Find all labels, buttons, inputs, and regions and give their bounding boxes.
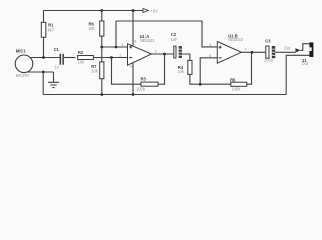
wire pin2 feedback down (112, 58, 142, 85)
wire U1:B output (241, 51, 265, 53)
wire C1 to R2 (64, 57, 76, 59)
op-amp U1:A (128, 44, 152, 65)
svg-text:NE5532: NE5532 (140, 38, 156, 43)
wire R4 to feedback line (190, 74, 231, 84)
svg-text:C2: C2 (171, 32, 177, 37)
node junction pin6/feedback (199, 83, 202, 86)
svg-text:NE5532: NE5532 (228, 37, 244, 42)
out arrow (295, 48, 300, 52)
wire bias node to pin3 (102, 46, 128, 48)
resistor R1 (41, 22, 46, 37)
resistor R7 (100, 62, 104, 79)
node junction pin4/rail (132, 93, 135, 96)
svg-text:2: 2 (119, 54, 121, 58)
resistor R6 (100, 21, 104, 36)
wire arrow to J1 tip (301, 44, 310, 51)
node junction R7/rail (100, 93, 103, 96)
svg-text:Out: Out (284, 46, 291, 51)
svg-text:4k7: 4k7 (47, 27, 54, 32)
wire R7 to ground rail (101, 79, 103, 95)
svg-text:5: 5 (209, 43, 211, 47)
svg-text:R2: R2 (78, 50, 84, 55)
svg-text:10k: 10k (78, 59, 86, 64)
node junction R2/feedback (110, 56, 113, 59)
svg-text:3: 3 (121, 43, 123, 47)
wire pin4 ground (132, 63, 134, 95)
svg-text:1u: 1u (54, 65, 59, 70)
svg-text:7: 7 (244, 48, 246, 52)
wire R6 to R7 bias column (101, 36, 103, 62)
node junction rail/pin8 (132, 9, 135, 12)
wire R2 to pin2 (94, 57, 128, 59)
svg-text:C1: C1 (54, 47, 60, 52)
svg-text:10k: 10k (177, 69, 185, 74)
node junction output/feedback (163, 53, 166, 56)
svg-text:100u: 100u (264, 58, 273, 63)
wire C3 to out (275, 51, 295, 53)
node junction mic/ground column (42, 71, 45, 74)
node junction bias/pin3 (100, 46, 103, 49)
svg-text:MICRO: MICRO (16, 73, 30, 78)
svg-text:MIC1: MIC1 (16, 49, 27, 54)
connector J1 (309, 42, 313, 57)
wire R5 to output (247, 52, 252, 84)
resistor R4 (188, 60, 192, 74)
wire C2 to R4 (182, 54, 190, 60)
wire mic bottom lead (27, 71, 54, 73)
wire J1 sleeve to ground (286, 55, 309, 94)
microphone MIC1 (15, 55, 33, 73)
wire bias to U1:B pin5 (116, 21, 217, 47)
wire ground column (42, 72, 44, 95)
svg-text:+9V: +9V (151, 8, 159, 13)
svg-text:C3: C3 (265, 39, 271, 44)
node junction output/R5 (251, 51, 254, 54)
resistor R5 (231, 82, 247, 86)
resistor R2 (78, 56, 94, 60)
svg-text:15k: 15k (88, 26, 96, 31)
resistor R3 (141, 82, 158, 86)
svg-text:R5: R5 (230, 78, 236, 83)
svg-text:6: 6 (209, 54, 211, 58)
ground symbol (48, 72, 59, 88)
capacitor C1 (60, 54, 62, 65)
capacitor C2 (174, 46, 176, 58)
svg-text:R3: R3 (141, 77, 147, 82)
wire R1 bottom stub (43, 37, 45, 57)
wire pin6 down (200, 58, 217, 84)
power +9V arrow (143, 9, 148, 13)
wire pin8 power (132, 11, 134, 47)
svg-text:100k: 100k (136, 87, 146, 92)
op-amp U1:B (217, 42, 241, 64)
svg-text:8: 8 (134, 39, 136, 43)
wire ground rail (43, 94, 286, 96)
svg-text:1: 1 (155, 49, 157, 53)
wire +9V top rail (44, 10, 144, 12)
svg-text:10k: 10k (91, 68, 99, 73)
node junction rail/R6 (100, 9, 103, 12)
svg-text:100k: 100k (232, 87, 242, 92)
svg-text:4: 4 (130, 65, 132, 69)
capacitor C3 (266, 46, 269, 58)
node junction R1/signal (42, 56, 45, 59)
node junction bias riser (115, 46, 118, 49)
wire R3 to output (158, 54, 165, 84)
wire rail to R6 (101, 11, 103, 22)
wire R1 top stub (43, 11, 45, 23)
wire mic top lead (30, 57, 60, 59)
wire U1:A output (152, 53, 174, 55)
svg-text:1uF: 1uF (171, 37, 179, 42)
svg-text:Out: Out (302, 61, 309, 66)
